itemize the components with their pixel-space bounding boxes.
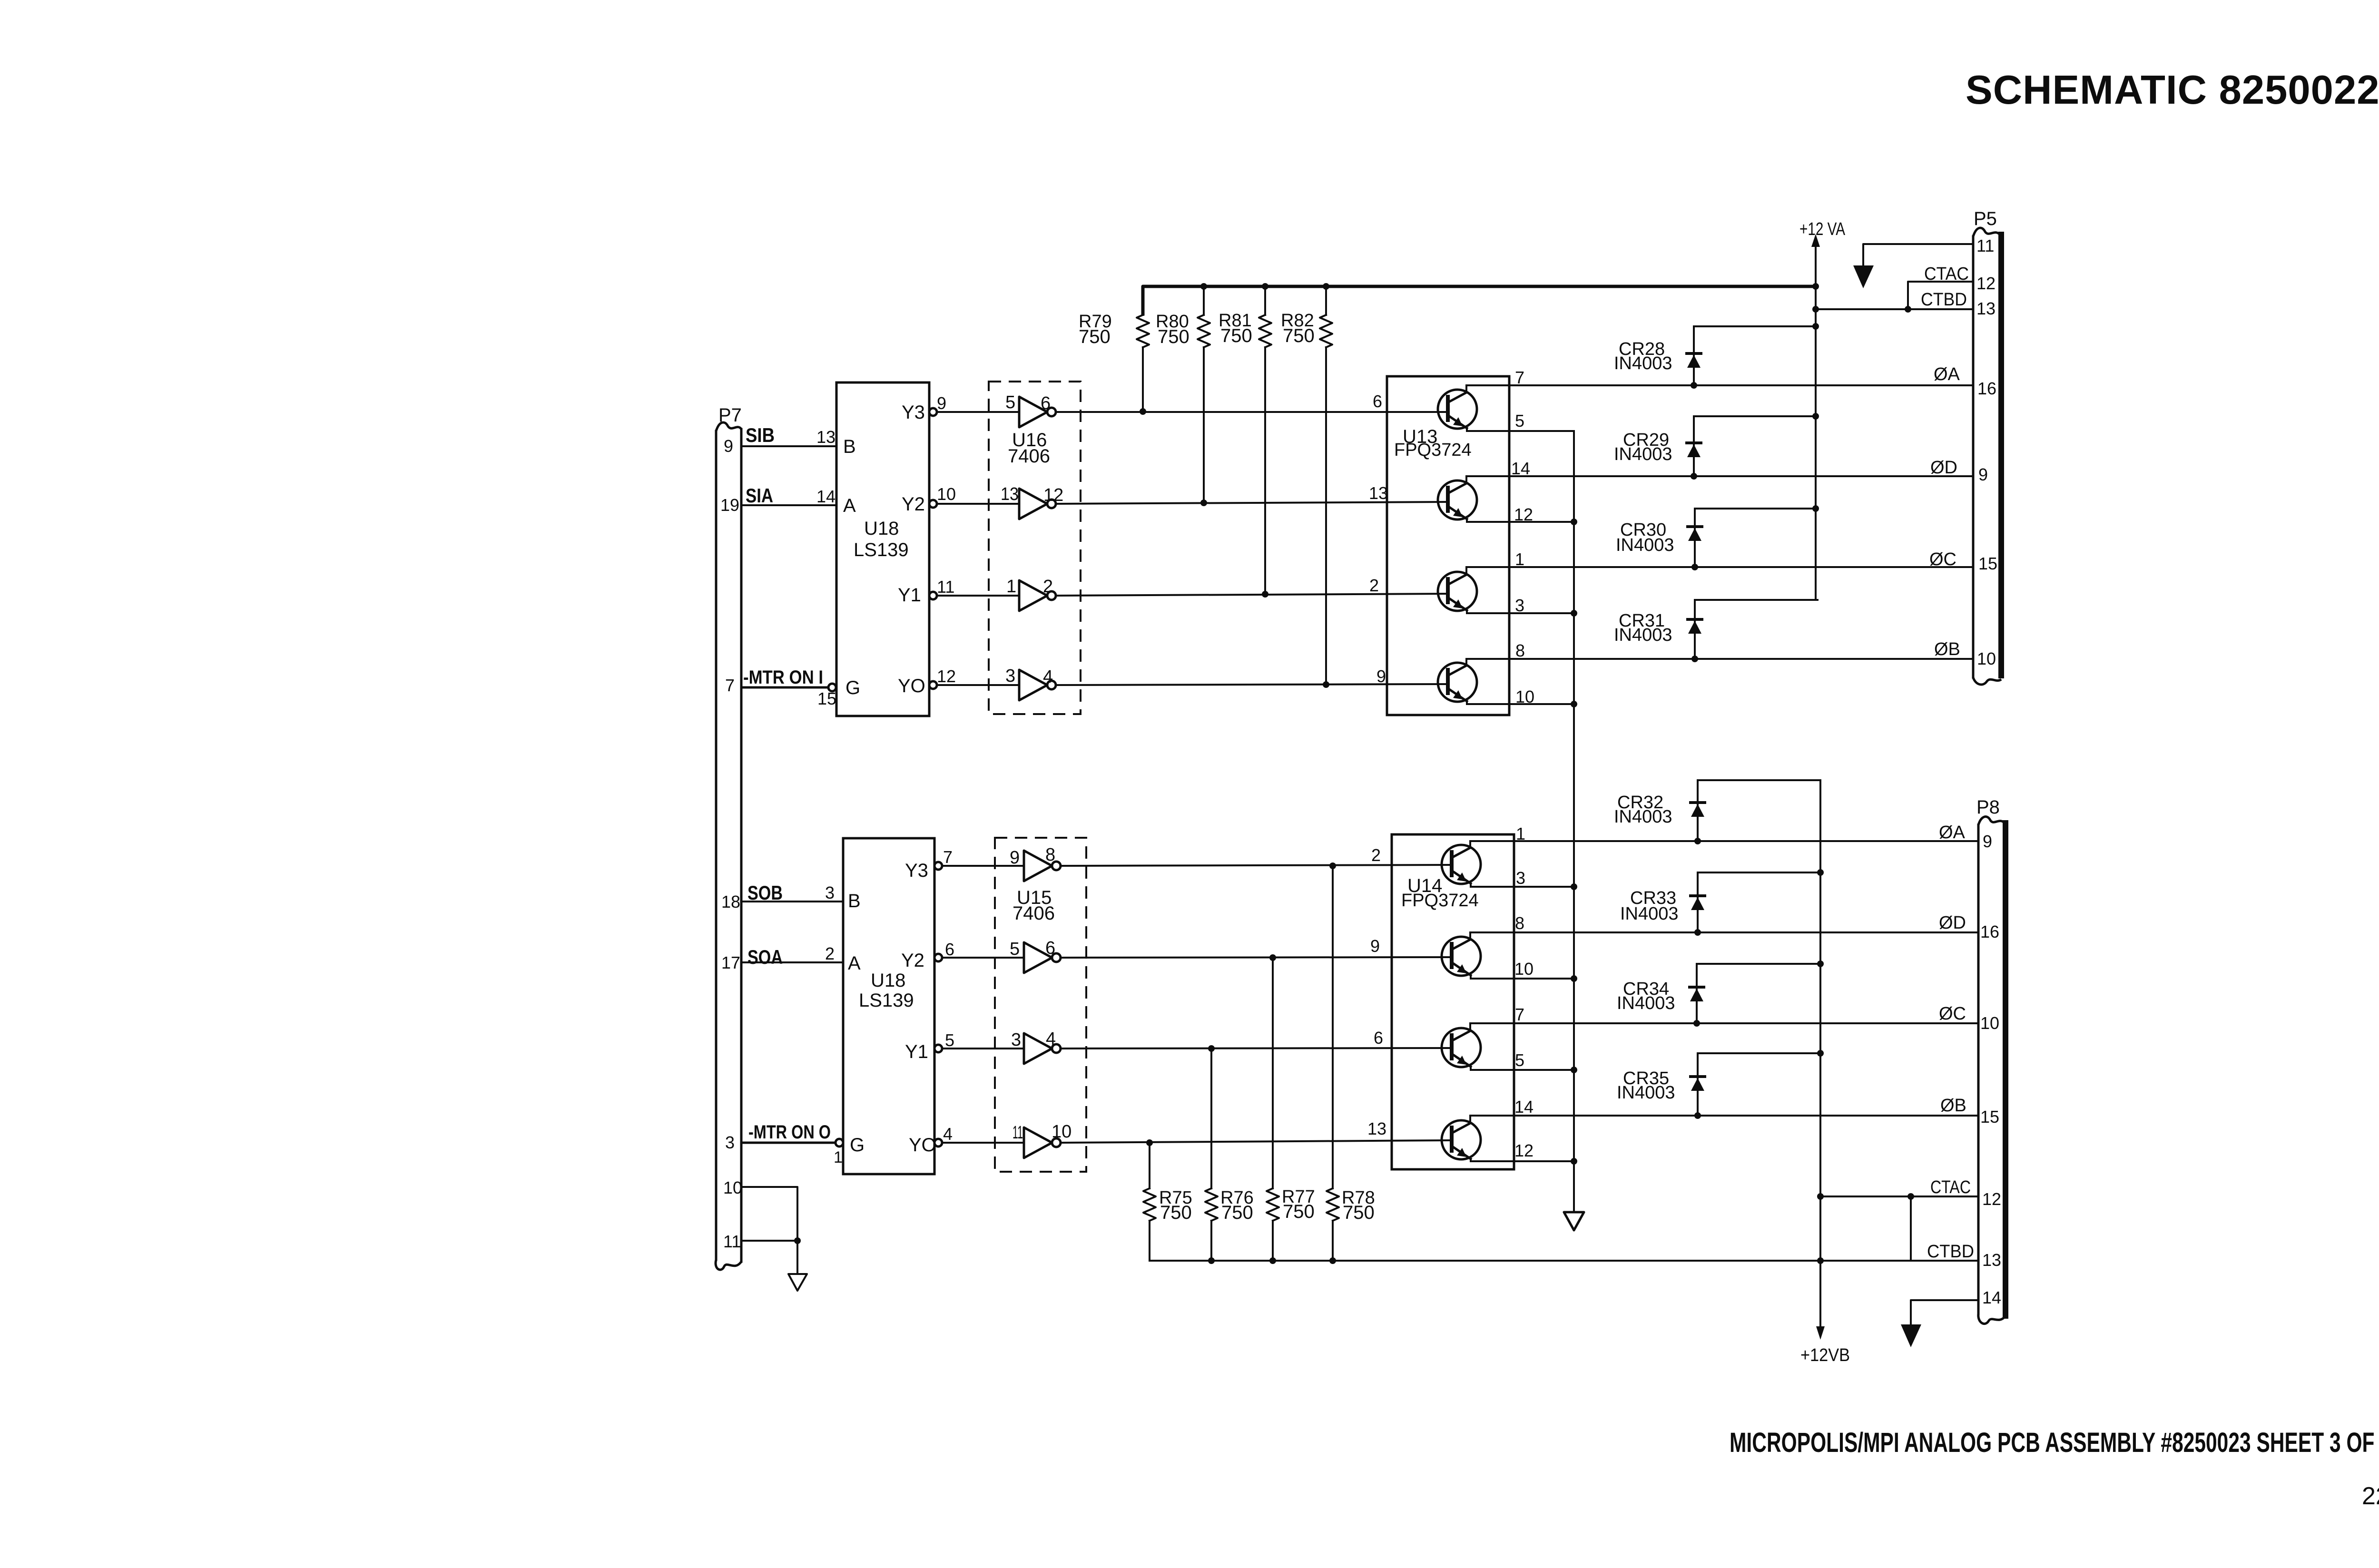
wire U16a out to U13 Q1 base (1056, 411, 1448, 413)
svg-text:CTAC: CTAC (1924, 264, 1969, 284)
svg-text:LS139: LS139 (854, 539, 909, 560)
svg-text:750: 750 (1160, 1202, 1192, 1223)
svg-text:ØA: ØA (1939, 823, 1966, 843)
bottom bus wire to P8 CTBD (1150, 1260, 1978, 1262)
junction R82 top (1323, 283, 1329, 290)
wire Q5 emitter to common (1471, 886, 1574, 888)
inverter U15c pins 3-4 (1024, 1033, 1052, 1064)
resistor R79 750 (1142, 286, 1144, 315)
svg-text:22: 22 (2362, 1482, 2379, 1510)
junction bottom bus at +12VB (1817, 1257, 1824, 1264)
svg-text:1: 1 (1515, 549, 1524, 569)
resistor R75 750 (1149, 1143, 1150, 1188)
svg-text:2: 2 (1371, 845, 1381, 865)
svg-text:ØA: ØA (1934, 364, 1960, 384)
wire Q5 collector to P8 pin 9 (phase A) (1470, 840, 1978, 842)
connector P5 (1972, 236, 1975, 677)
svg-text:8: 8 (1515, 641, 1525, 660)
junction R82 bottom on Q4 base wire (1323, 681, 1329, 688)
U18 Y0 output bubble pin 12 (929, 681, 937, 689)
junction R76 bottom (1208, 1257, 1215, 1264)
resistor R76 750 (1210, 1049, 1212, 1188)
junction emitter Q3 (1571, 610, 1577, 617)
svg-text:9: 9 (1010, 848, 1020, 868)
transistor Q5 (U14) (1442, 845, 1481, 884)
svg-text:A: A (843, 495, 856, 516)
P5 pin 12 CTAC (1908, 282, 1973, 309)
svg-text:G: G (850, 1135, 865, 1156)
connector P7 (715, 431, 718, 1260)
inverter U16c pins 1-2 (1019, 580, 1047, 611)
svg-text:10: 10 (1052, 1122, 1072, 1142)
wire U15a out to U14 Q5 base (1061, 865, 1452, 866)
svg-text:Y2: Y2 (901, 950, 924, 971)
junction CTAC/CTBD (1905, 306, 1911, 313)
inverter U16a pins 5-6 (1019, 397, 1047, 427)
svg-text:11: 11 (1976, 236, 1994, 255)
svg-text:5: 5 (1515, 411, 1524, 431)
svg-text:750: 750 (1220, 325, 1252, 346)
svg-text:ØD: ØD (1939, 913, 1966, 933)
svg-text:IN4003: IN4003 (1614, 353, 1672, 373)
wire Q6 collector to P8 pin 16 (phase D) (1470, 931, 1978, 933)
svg-text:P8: P8 (1976, 797, 2000, 818)
wire P7-18 SOB to U18 B (741, 901, 843, 902)
svg-text:SIA: SIA (746, 484, 773, 507)
svg-text:2: 2 (825, 944, 835, 963)
svg-text:IN4003: IN4003 (1614, 444, 1672, 464)
svg-text:750: 750 (1158, 326, 1189, 347)
U18 lower Y1 bubble pin 5 (934, 1045, 942, 1052)
svg-text:9: 9 (1983, 832, 1992, 851)
junction R77 top (1269, 954, 1276, 961)
junction CR30 cathode at +12VA (1812, 505, 1819, 512)
svg-text:750: 750 (1283, 1201, 1315, 1222)
junction CR34 cathode at +12VB (1817, 960, 1824, 967)
svg-text:4: 4 (1046, 1029, 1056, 1049)
svg-text:YO: YO (898, 676, 925, 696)
junction bus / +12VA (1812, 283, 1819, 290)
+12VA supply arrow (1815, 245, 1817, 286)
P5 pin 11 wire to return arrow (1863, 244, 1973, 265)
junction emitter Q8 (1571, 1158, 1577, 1165)
diode CR30 IN4003 (1694, 509, 1696, 567)
decoder U18 (lower half LS139) (843, 838, 934, 1174)
svg-text:Y3: Y3 (905, 860, 928, 881)
wire lower Y2 to U15b (942, 957, 1024, 959)
inverter U15d pins 11-10 (1024, 1127, 1052, 1158)
wire Q7 emitter to common (1471, 1069, 1574, 1071)
wire U16b out to U13 Q2 base (1056, 502, 1448, 504)
decoder U18 (upper half LS139) (836, 382, 929, 716)
svg-text:6: 6 (945, 940, 954, 959)
wire P7-3 -MTR ON 0 to U18 G (741, 1142, 836, 1144)
svg-text:6: 6 (1373, 392, 1382, 411)
diode CR35 IN4003 (1697, 1053, 1699, 1116)
diode CR32 IN4003 (1697, 780, 1699, 841)
svg-text:13: 13 (1976, 299, 1996, 318)
hex inverter U16 7406 (dashed box) (989, 382, 1081, 714)
+12VA vertical rail (1815, 286, 1817, 600)
svg-text:Y1: Y1 (905, 1041, 928, 1062)
svg-text:MICROPOLIS/MPI ANALOG PCB ASSE: MICROPOLIS/MPI ANALOG PCB ASSEMBLY #8250… (1730, 1427, 2379, 1458)
junction emitter Q5 (1571, 883, 1577, 890)
wire lower Y1 to U15c (942, 1048, 1024, 1049)
svg-text:SIB: SIB (746, 424, 775, 446)
svg-text:5: 5 (945, 1030, 954, 1050)
svg-text:16: 16 (1980, 922, 1999, 941)
junction R76 top (1208, 1045, 1215, 1052)
wire Q1 emitter to common (1467, 430, 1574, 432)
svg-text:YO: YO (909, 1135, 936, 1156)
svg-text:10: 10 (1980, 1013, 1999, 1033)
junction CR34 anode (1693, 1020, 1700, 1027)
wire Q2 emitter to common (1467, 521, 1574, 523)
junction CTAC at +12VB (1817, 1193, 1824, 1200)
inverter U15a pins 9-8 (1024, 851, 1052, 881)
junction R77 bottom (1269, 1257, 1276, 1264)
svg-text:IN4003: IN4003 (1616, 535, 1674, 555)
svg-text:7: 7 (943, 847, 953, 867)
svg-text:5: 5 (1005, 392, 1015, 412)
wire Y3 to U16a (937, 411, 1019, 413)
svg-text:750: 750 (1079, 326, 1111, 347)
U18 lower Y2 bubble pin 6 (934, 954, 942, 961)
junction R80 bottom on Q2 base wire (1200, 500, 1207, 506)
wire lower Y0 to U15d (942, 1142, 1024, 1144)
wire to ground arrow (796, 1241, 798, 1274)
svg-text:750: 750 (1221, 1202, 1253, 1223)
svg-text:G: G (845, 677, 860, 698)
svg-text:8: 8 (1515, 913, 1524, 933)
svg-text:CTAC: CTAC (1930, 1177, 1971, 1197)
junction CR35 anode (1694, 1112, 1701, 1119)
svg-text:+12 VA: +12 VA (1799, 219, 1846, 239)
wire P7-11 to ground (741, 1240, 797, 1242)
inverter U15b pins 5-6 (1024, 942, 1052, 973)
svg-text:11: 11 (937, 577, 954, 597)
wire U15d out to U14 Q8 base (1061, 1140, 1452, 1143)
svg-text:13: 13 (1001, 484, 1019, 504)
svg-text:11: 11 (1013, 1123, 1023, 1143)
svg-text:SOA: SOA (747, 946, 783, 968)
junction P7-11 (794, 1237, 801, 1244)
svg-text:1: 1 (1006, 577, 1016, 597)
junction emitter Q2 (1571, 519, 1577, 525)
transistor Q1 (U13) (1438, 390, 1477, 429)
svg-text:IN4003: IN4003 (1617, 993, 1675, 1013)
transistor array U13 FPQ3724 (1387, 376, 1509, 715)
junction emitter Q7 (1571, 1067, 1577, 1073)
svg-text:12: 12 (1982, 1189, 2001, 1209)
svg-text:14: 14 (1511, 459, 1530, 478)
U18 lower Y0 bubble pin 4 (934, 1139, 942, 1147)
svg-text:-MTR ON O: -MTR ON O (748, 1122, 831, 1143)
svg-text:4: 4 (1043, 667, 1053, 687)
svg-text:7: 7 (1515, 1005, 1524, 1024)
wire U15b out to U14 Q6 base (1061, 957, 1452, 958)
svg-text:IN4003: IN4003 (1614, 807, 1672, 827)
junction CR35 cathode at +12VB (1817, 1050, 1824, 1057)
svg-text:6: 6 (1045, 938, 1055, 958)
wire Q8 collector to P8 pin 15 (phase B) (1470, 1115, 1978, 1117)
U18 G input bubble (828, 684, 836, 691)
svg-text:750: 750 (1283, 325, 1315, 346)
wire Q4 collector to P5 pin 10 (phase B) (1466, 658, 1973, 660)
transistor Q7 (U14) (1442, 1028, 1481, 1067)
P5 pin 13 CTBD (1816, 308, 1973, 310)
svg-text:16: 16 (1977, 379, 1996, 398)
wire P7-19 SIA to U18 A (741, 504, 836, 506)
svg-text:10: 10 (1514, 959, 1534, 979)
svg-text:+12VB: +12VB (1800, 1345, 1850, 1365)
svg-text:1: 1 (834, 1148, 843, 1166)
+12VB vertical rail (1819, 780, 1821, 1327)
svg-text:IN4003: IN4003 (1617, 1083, 1675, 1103)
transistor Q6 (U14) (1442, 937, 1481, 976)
svg-text:14: 14 (816, 487, 836, 506)
wire Y0 to U16d (937, 684, 1019, 686)
resistor R80 750 (1203, 286, 1205, 315)
svg-text:2: 2 (1369, 576, 1379, 595)
junction CTBD at +12VA (1812, 306, 1819, 313)
svg-text:SCHEMATIC 8250022: SCHEMATIC 8250022 (1966, 68, 2379, 113)
svg-text:CTBD: CTBD (1921, 290, 1967, 310)
wire Q1 collector to P5 pin 16 (phase A) (1466, 384, 1973, 386)
svg-text:A: A (848, 953, 861, 974)
svg-text:12: 12 (1976, 274, 1996, 293)
+12VA top bus (1143, 286, 1816, 314)
junction emitter Q6 (1571, 975, 1577, 982)
wire P7-10 (741, 1187, 797, 1241)
svg-text:19: 19 (720, 495, 739, 515)
svg-text:3: 3 (1011, 1030, 1021, 1050)
diode CR28 IN4003 (1693, 326, 1695, 385)
junction R81 bottom on Q3 base wire (1262, 591, 1268, 598)
ground arrow under P7 (788, 1274, 807, 1291)
wire Y1 to U16c (937, 595, 1019, 597)
wire Q7 collector to P8 pin 10 (phase C) (1470, 1022, 1978, 1024)
svg-text:ØD: ØD (1930, 458, 1957, 478)
svg-text:Y1: Y1 (898, 585, 921, 606)
svg-text:2: 2 (1043, 577, 1053, 597)
svg-text:15: 15 (1980, 1107, 1999, 1127)
junction R78 bottom (1329, 1257, 1336, 1264)
diode CR33 IN4003 (1697, 872, 1699, 932)
hex inverter U15 7406 (dashed box) (995, 838, 1086, 1172)
resistor R77 750 (1272, 958, 1274, 1188)
svg-text:9: 9 (724, 436, 733, 456)
junction CR31 anode (1691, 656, 1698, 662)
svg-text:7: 7 (1515, 368, 1524, 387)
svg-text:7406: 7406 (1008, 446, 1050, 467)
wire Q6 emitter to common (1471, 978, 1574, 980)
junction CR33 cathode at +12VB (1817, 869, 1824, 876)
svg-text:15: 15 (1978, 554, 1997, 573)
wire P7-9 SIB to U18 B (741, 445, 836, 447)
svg-text:B: B (848, 891, 861, 911)
svg-text:P5: P5 (1974, 208, 1997, 229)
wire Y2 to U16b (937, 503, 1019, 505)
svg-text:P7: P7 (718, 405, 742, 426)
U18 lower Y3 bubble pin 7 (934, 862, 942, 870)
resistor R81 750 (1264, 286, 1266, 315)
junction CR29 anode (1691, 473, 1697, 480)
svg-text:17: 17 (721, 953, 740, 972)
svg-text:14: 14 (1982, 1288, 2001, 1307)
resistor R78 750 (1332, 866, 1334, 1188)
P8 pin 12 CTAC wire (1820, 1196, 1978, 1197)
junction CR28 anode (1691, 382, 1697, 389)
svg-text:14: 14 (1514, 1097, 1534, 1117)
junction emitter Q4 (1571, 701, 1577, 707)
junction CR32 anode (1694, 838, 1701, 844)
svg-text:3: 3 (825, 883, 835, 902)
wire lower Y3 to U15a (942, 865, 1024, 867)
diode CR29 IN4003 (1693, 416, 1695, 476)
junction R78 top (1329, 862, 1336, 869)
svg-text:3: 3 (1005, 666, 1015, 686)
inverter U16b pins 13-12 (1019, 489, 1047, 519)
svg-text:U18: U18 (864, 518, 899, 539)
svg-text:Y2: Y2 (902, 494, 925, 515)
svg-text:9: 9 (1978, 465, 1988, 484)
U18 Y2 output bubble pin 10 (929, 500, 937, 508)
U18 Y3 output bubble pin 9 (929, 408, 937, 416)
diode CR31 IN4003 (1694, 600, 1696, 659)
junction R80 top (1200, 283, 1207, 290)
svg-text:13: 13 (1369, 483, 1388, 503)
junction CR28 cathode at +12VA (1812, 323, 1819, 330)
svg-text:LS139: LS139 (859, 990, 914, 1011)
wire Q4 emitter to common (1467, 703, 1574, 705)
svg-text:750: 750 (1343, 1202, 1375, 1223)
svg-text:5: 5 (1515, 1050, 1524, 1070)
wire Q2 collector to P5 pin 9 (phase D) (1466, 475, 1973, 477)
svg-text:7406: 7406 (1013, 903, 1055, 924)
svg-text:13: 13 (1982, 1250, 2001, 1270)
wire Q8 emitter to common (1471, 1160, 1574, 1162)
svg-text:-MTR ON I: -MTR ON I (743, 667, 823, 688)
svg-text:8: 8 (1045, 845, 1055, 865)
svg-text:9: 9 (937, 393, 946, 413)
resistor R82 750 (1325, 286, 1327, 315)
svg-text:IN4003: IN4003 (1620, 904, 1679, 924)
U18 Y1 output bubble pin 11 (929, 592, 937, 599)
wire U16c out to U13 Q3 base (1056, 594, 1448, 596)
svg-text:FPQ3724: FPQ3724 (1394, 440, 1472, 460)
svg-text:ØC: ØC (1929, 549, 1956, 569)
wire P7-7 -MTR ON 1 to U18 G (741, 686, 828, 689)
svg-text:IN4003: IN4003 (1614, 625, 1672, 645)
svg-text:ØB: ØB (1940, 1096, 1966, 1116)
inverter U16d pins 3-4 (1019, 670, 1047, 700)
svg-text:B: B (843, 436, 856, 457)
svg-text:5: 5 (1010, 939, 1020, 959)
svg-text:18: 18 (721, 892, 740, 911)
wire Q3 emitter to common (1467, 612, 1574, 614)
svg-text:3: 3 (725, 1133, 735, 1152)
wire U16d out to U13 Q4 base (1056, 684, 1448, 685)
ground arrow (emitter return) (1564, 1212, 1584, 1230)
svg-text:3: 3 (1515, 596, 1524, 615)
junction R75 top (1146, 1139, 1153, 1146)
junction CR30 anode (1691, 564, 1698, 570)
transistor Q4 (U13) (1438, 663, 1477, 702)
junction R81 top (1262, 283, 1268, 290)
transistor array U14 FPQ3724 (1392, 834, 1514, 1169)
P8 pin 13 CTBD branch (1910, 1196, 1912, 1261)
transistor Q2 (U13) (1438, 480, 1477, 519)
svg-text:13: 13 (1367, 1119, 1386, 1138)
svg-text:9: 9 (1370, 936, 1380, 956)
svg-text:CTBD: CTBD (1927, 1242, 1974, 1262)
svg-text:13: 13 (816, 427, 836, 447)
wire U15c out to U14 Q7 base (1061, 1048, 1452, 1049)
svg-text:U18: U18 (871, 970, 905, 991)
diode CR34 IN4003 (1696, 964, 1698, 1023)
wire P7-17 SOA to U18 A (741, 961, 843, 963)
svg-text:10: 10 (1977, 649, 1996, 668)
U18 lower G input bubble (836, 1139, 843, 1147)
junction CR29 cathode at +12VA (1812, 413, 1819, 420)
transistor Q8 (U14) (1442, 1120, 1481, 1159)
svg-text:Y3: Y3 (902, 402, 925, 423)
wire Q3 collector to P5 pin 15 (phase C) (1466, 566, 1973, 568)
svg-text:11: 11 (723, 1232, 741, 1251)
svg-text:6: 6 (1041, 393, 1051, 413)
junction R79 bottom on Q1 base wire (1140, 408, 1146, 415)
svg-text:4: 4 (943, 1124, 953, 1144)
svg-text:12: 12 (1514, 1141, 1534, 1160)
transistor Q3 (U13) (1438, 572, 1477, 611)
svg-text:ØC: ØC (1939, 1004, 1966, 1024)
svg-text:6: 6 (1374, 1028, 1383, 1048)
svg-text:12: 12 (937, 666, 956, 686)
junction CTBD branch (1907, 1193, 1914, 1200)
svg-text:SOB: SOB (747, 882, 783, 904)
svg-text:9: 9 (1376, 666, 1386, 686)
connector P8 (1977, 825, 1980, 1314)
P8 pin 14 wire to return arrow (1911, 1300, 1978, 1324)
svg-text:10: 10 (937, 484, 956, 504)
svg-text:12: 12 (1043, 485, 1063, 505)
svg-text:ØB: ØB (1934, 639, 1960, 659)
common emitter return vertical (1573, 431, 1575, 1212)
svg-text:10: 10 (723, 1178, 742, 1197)
svg-text:3: 3 (1516, 868, 1525, 888)
svg-text:7: 7 (725, 676, 735, 695)
junction CR33 anode (1694, 929, 1701, 936)
svg-text:FPQ3724: FPQ3724 (1401, 891, 1479, 911)
